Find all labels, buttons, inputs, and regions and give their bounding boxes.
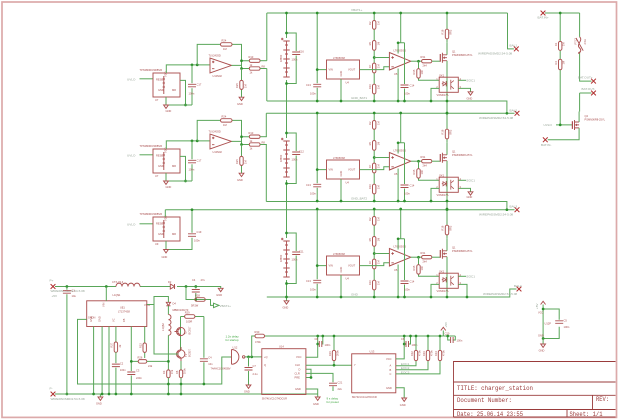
svg-text:EOC3: EOC3 xyxy=(401,370,410,374)
capacitor C21 xyxy=(329,383,337,386)
svg-text:WIREPADSMD2.54-5.08: WIREPADSMD2.54-5.08 xyxy=(478,52,512,56)
svg-text:D2: D2 xyxy=(168,280,172,284)
title block xyxy=(454,362,616,419)
ground symbol top xyxy=(218,288,223,291)
svg-text:100n: 100n xyxy=(120,368,126,372)
svg-text:GND: GND xyxy=(158,232,164,236)
svg-text:GND: GND xyxy=(244,389,250,393)
svg-text:LT1374S8: LT1374S8 xyxy=(118,310,130,314)
svg-text:R30: R30 xyxy=(255,330,260,334)
IC TPS3809 U9 xyxy=(153,217,180,241)
svg-text:U14: U14 xyxy=(279,344,284,348)
svg-text:47k: 47k xyxy=(170,369,174,374)
svg-text:C1: C1 xyxy=(72,289,76,293)
svg-text:BAT.IN+: BAT.IN+ xyxy=(538,16,549,20)
svg-text:WIREPADSMD2.54-5.08: WIREPADSMD2.54-5.08 xyxy=(483,292,517,296)
svg-text:GND: GND xyxy=(162,255,168,259)
wire primary top xyxy=(55,287,221,289)
ground symbol under U9 xyxy=(164,250,169,253)
capacitor C12 (across cell 2) xyxy=(285,132,304,185)
svg-text:GND: GND xyxy=(295,387,301,391)
svg-text:Date: 25.06.14 23:55: Date: 25.06.14 23:55 xyxy=(457,411,523,418)
svg-text:BAL4: BAL4 xyxy=(514,284,522,288)
wire U$1 SHDN pin delay node to U12 input xyxy=(78,319,232,384)
ground symbol on GND_BAT3 xyxy=(286,297,288,301)
IC U13 gate SN74LVC1G27 xyxy=(352,354,396,393)
svg-text:470k: 470k xyxy=(255,340,261,344)
svg-text:1M: 1M xyxy=(562,61,566,65)
resistor R26 feedback xyxy=(138,360,147,364)
svg-text:GND: GND xyxy=(538,334,544,338)
resistor R19 on CLK xyxy=(333,336,335,365)
svg-text:18650: 18650 xyxy=(279,154,283,162)
wire U13 VCC xyxy=(396,336,404,359)
wire U14 PRE stub xyxy=(306,377,311,379)
svg-text:C6: C6 xyxy=(401,337,405,341)
resistor R22 compensation xyxy=(144,327,146,359)
svg-text:200k: 200k xyxy=(336,350,340,356)
wire U14 CLK to U13 Y xyxy=(306,364,352,366)
svg-text:UVLO: UVLO xyxy=(127,222,136,226)
svg-text:18650: 18650 xyxy=(279,254,283,262)
IC U14 flip-flop SN74LVC1G74 xyxy=(262,349,306,395)
IC U12 inverter 74AHC1G04 xyxy=(211,335,245,371)
svg-text:U9: U9 xyxy=(155,242,159,246)
wire GND_BAT1 rail xyxy=(267,101,507,113)
wire EOC2 with pullup R33 xyxy=(396,336,428,370)
svg-text:GND_BAT1: GND_BAT1 xyxy=(351,96,367,100)
wire U14 VCC xyxy=(306,336,318,357)
svg-text:P-: P- xyxy=(50,386,53,390)
wire pad P- xyxy=(51,392,56,397)
wire U12 output to U14 xyxy=(245,356,262,358)
svg-text:D4: D4 xyxy=(173,302,177,306)
wire EOC1 with pullup R32 xyxy=(396,336,416,366)
svg-text:47u: 47u xyxy=(201,278,206,282)
svg-text:C4: C4 xyxy=(192,278,196,282)
svg-text:C12: C12 xyxy=(299,150,304,154)
wire VBAT2+ rail xyxy=(266,112,514,114)
diode D4 MBR0130 xyxy=(166,302,170,306)
svg-text:+5V: +5V xyxy=(52,294,59,298)
svg-text:C21: C21 xyxy=(338,381,343,385)
svg-text:C11: C11 xyxy=(299,250,304,254)
svg-text:22u: 22u xyxy=(338,387,343,391)
wire to output xyxy=(186,287,214,306)
svg-text:R28: R28 xyxy=(195,294,200,298)
diode D2 xyxy=(170,284,174,289)
svg-text:C19: C19 xyxy=(197,230,202,234)
svg-text:L1Q$2: L1Q$2 xyxy=(161,323,165,331)
svg-text:PTC1: PTC1 xyxy=(574,37,578,44)
wire opto OK2 emitter to GND xyxy=(458,188,470,191)
resistor R3 470k xyxy=(167,370,170,378)
svg-text:VCC: VCC xyxy=(296,355,302,359)
svg-text:R33: R33 xyxy=(422,351,426,356)
svg-text:220n: 220n xyxy=(136,376,142,380)
wire pad BAL2 xyxy=(515,111,520,116)
svg-text:24k: 24k xyxy=(148,364,153,368)
wire GND_BAT2 rail xyxy=(266,202,507,210)
svg-text:U$1: U$1 xyxy=(120,306,125,310)
svg-text:100k: 100k xyxy=(183,368,187,374)
transistor T2 xyxy=(175,327,185,335)
svg-text:REV:: REV: xyxy=(596,396,609,403)
capacitor C16 (across cell 1) xyxy=(285,32,304,85)
svg-text:BAT.OUT-: BAT.OUT- xyxy=(582,87,596,91)
svg-text:C5: C5 xyxy=(564,319,568,323)
svg-text:U12P: U12P xyxy=(545,321,552,325)
wire pad BAT.IN- xyxy=(543,137,548,142)
capacitor C20 bypass xyxy=(443,336,455,340)
svg-text:R3: R3 xyxy=(162,370,166,374)
svg-text:10n: 10n xyxy=(208,362,213,366)
node VBAT1+ output arrow xyxy=(214,303,220,307)
resistor R27 xyxy=(114,342,117,352)
capacitor C11 (across cell 3) xyxy=(285,232,304,285)
svg-text:T1: T1 xyxy=(184,353,188,357)
capacitor C6 xyxy=(404,336,410,344)
svg-text:L1Q$1: L1Q$1 xyxy=(113,293,121,297)
inductor L1Q$2 secondary winding xyxy=(167,306,169,315)
svg-text:C8: C8 xyxy=(315,337,319,341)
svg-text:2k: 2k xyxy=(118,344,122,347)
svg-text:GND: GND xyxy=(351,293,359,297)
svg-text:74AHC1G04DBV: 74AHC1G04DBV xyxy=(211,366,231,370)
svg-text:C2: C2 xyxy=(120,362,124,366)
wire UVLO to Q4 gate xyxy=(556,124,572,126)
svg-text:GND: GND xyxy=(283,306,289,310)
svg-text:U12: U12 xyxy=(233,346,238,350)
svg-text:GND_BAT2: GND_BAT2 xyxy=(351,197,367,201)
svg-text:R22: R22 xyxy=(139,343,143,348)
svg-text:+Q: +Q xyxy=(264,355,268,359)
svg-text:TITLE: charger_station: TITLE: charger_station xyxy=(457,385,533,392)
transistor Q4 MOSFET output switch xyxy=(572,120,579,130)
svg-text:for preset: for preset xyxy=(327,400,339,404)
svg-text:BAT.OUT+: BAT.OUT+ xyxy=(578,76,593,80)
svg-text:CLK: CLK xyxy=(295,363,300,367)
svg-text:C7: C7 xyxy=(253,364,257,368)
svg-text:470k: 470k xyxy=(418,350,422,356)
wire opto OK3 emitter to GND rail xyxy=(458,284,467,297)
svg-text:R34: R34 xyxy=(434,351,438,356)
battery B1 (cell 1) xyxy=(281,38,290,77)
wire UVLO stub row3 xyxy=(140,223,154,225)
svg-text:GND: GND xyxy=(96,402,102,406)
transistor T1 xyxy=(177,347,185,361)
svg-text:10u: 10u xyxy=(72,294,77,298)
wire stack column x447 rail links xyxy=(446,101,448,210)
svg-text:BAT.IN-: BAT.IN- xyxy=(541,143,551,147)
svg-text:+5V: +5V xyxy=(444,321,448,328)
capacitor C3 220n xyxy=(130,361,132,394)
svg-text:Sheet: 1/1: Sheet: 1/1 xyxy=(570,411,603,418)
svg-text:MR: MR xyxy=(172,232,176,236)
wire UVLO divider column xyxy=(559,13,561,125)
svg-text:100n: 100n xyxy=(564,325,570,329)
svg-text:C: C xyxy=(390,372,392,376)
svg-text:BC817: BC817 xyxy=(187,326,191,334)
wire BAL1 xyxy=(508,13,514,49)
svg-text:R29: R29 xyxy=(185,311,190,315)
resistor R30 to +5V bus xyxy=(252,336,444,357)
svg-text:GND: GND xyxy=(539,349,545,353)
svg-text:SHDN: SHDN xyxy=(88,315,95,319)
svg-text:100n: 100n xyxy=(292,58,298,62)
capacitor C1 input xyxy=(66,287,68,395)
resistor R29 xyxy=(181,317,204,351)
svg-text:100n: 100n xyxy=(194,239,200,243)
svg-text:100n: 100n xyxy=(457,339,463,343)
svg-text:A: A xyxy=(390,364,392,368)
battery B2 (cell 2) xyxy=(281,138,290,177)
wire pad BAT.IN+ on VBAT1+ rail xyxy=(541,11,546,16)
svg-text:470k: 470k xyxy=(442,350,446,356)
svg-text:VBAT1+: VBAT1+ xyxy=(351,8,363,12)
capacitor C10n delay xyxy=(203,345,205,384)
svg-text:R4: R4 xyxy=(554,61,558,65)
wire U14 D to PRE link xyxy=(306,369,311,377)
svg-text:BAL3: BAL3 xyxy=(510,205,518,209)
svg-text:100n: 100n xyxy=(292,258,298,262)
supply +5V arrow right xyxy=(441,327,446,330)
svg-text:GND: GND xyxy=(313,402,319,406)
capacitor C19 xyxy=(166,210,192,250)
svg-text:18650: 18650 xyxy=(279,54,283,62)
svg-text:GND: GND xyxy=(467,96,473,100)
svg-text:GND: GND xyxy=(467,195,473,199)
svg-text:VC: VC xyxy=(111,318,115,322)
svg-text:VCC: VCC xyxy=(538,311,544,315)
wire row1 comparator outputs to rails xyxy=(266,13,268,101)
resistor R2b 100k xyxy=(179,370,182,378)
svg-text:WIREPADSMD2.54-5.08: WIREPADSMD2.54-5.08 xyxy=(479,116,513,120)
svg-text:U13: U13 xyxy=(370,349,375,353)
svg-text:2.5A: 2.5A xyxy=(583,39,587,45)
ground symbol on bus xyxy=(99,394,101,397)
wire pad P+ xyxy=(51,284,56,289)
svg-text:GND: GND xyxy=(98,316,102,322)
svg-text:BAL2: BAL2 xyxy=(510,109,518,113)
svg-text:100n: 100n xyxy=(292,158,298,162)
svg-text:D: D xyxy=(299,367,301,371)
wire U14 GND xyxy=(306,389,318,397)
svg-text:R32: R32 xyxy=(410,351,414,356)
resistor R28 xyxy=(195,298,205,302)
resistor R4 100k xyxy=(559,59,562,69)
svg-text:GND: GND xyxy=(216,293,222,297)
wire pad BAL3 xyxy=(515,207,520,212)
svg-text:WIREPADSMD2.54-5.08: WIREPADSMD2.54-5.08 xyxy=(479,212,513,216)
svg-text:VIN: VIN xyxy=(102,303,106,307)
svg-text:B: B xyxy=(390,368,392,372)
svg-text:UVLO: UVLO xyxy=(544,123,553,127)
svg-text:VBAT1+: VBAT1+ xyxy=(220,304,232,308)
svg-text:BC857: BC857 xyxy=(188,349,192,357)
svg-text:PRE: PRE xyxy=(295,376,301,380)
svg-text:VCC: VCC xyxy=(386,357,392,361)
svg-text:C4: C4 xyxy=(208,356,212,360)
svg-text:C3: C3 xyxy=(136,369,140,373)
svg-text:C20: C20 xyxy=(445,332,450,336)
capacitor C8 xyxy=(318,336,323,344)
wire pad BAL4 xyxy=(517,287,522,292)
svg-text:5R1W: 5R1W xyxy=(191,304,199,308)
svg-text:Y: Y xyxy=(354,363,356,367)
ground symbol xyxy=(542,339,544,345)
wire opto OK1 emitter to GND xyxy=(458,88,470,91)
svg-text:470k: 470k xyxy=(430,350,434,356)
svg-text:GND: GND xyxy=(400,403,406,407)
fuse PTC1 xyxy=(576,37,583,53)
svg-text:for startup: for startup xyxy=(226,338,239,342)
svg-text:TPS3809K33DBVR: TPS3809K33DBVR xyxy=(140,212,163,216)
svg-text:100R: 100R xyxy=(186,320,192,324)
capacitor C2 100n xyxy=(115,352,117,394)
svg-text:C16: C16 xyxy=(299,50,304,54)
svg-text:PSMN06R8-25YL: PSMN06R8-25YL xyxy=(585,118,606,122)
svg-text:Document Number:: Document Number: xyxy=(457,397,512,404)
svg-text:GND: GND xyxy=(386,386,392,390)
junction dots battery stack on rails xyxy=(285,12,288,15)
wire GND_BAT3 rail xyxy=(267,289,517,297)
svg-text:WIREPADSMD2.54-5.08: WIREPADSMD2.54-5.08 xyxy=(51,397,85,401)
wire VCC branch xyxy=(543,305,559,339)
wire PTC column xyxy=(580,13,592,112)
title block outline xyxy=(454,362,616,418)
resistor R1 1M xyxy=(559,41,562,50)
svg-text:R1: R1 xyxy=(554,42,558,46)
wire U$1 VSW to secondary xyxy=(147,297,169,305)
svg-text:P+: P+ xyxy=(50,278,54,282)
wire EOC3 with pullup R34 xyxy=(396,336,440,374)
wire VBAT3+ rail xyxy=(165,209,514,211)
svg-text:CLR: CLR xyxy=(295,371,300,375)
wire primary ground bus xyxy=(55,393,318,395)
svg-text:100n: 100n xyxy=(412,343,418,347)
IC U$1 LT1374 regulator xyxy=(87,301,147,327)
wire U$1 VIN from P+ xyxy=(105,287,107,301)
wire battery stack vertical xyxy=(286,13,288,297)
supply +5V arrow xyxy=(541,301,546,304)
svg-text:SN74LVC1G74DCUR: SN74LVC1G74DCUR xyxy=(262,396,287,400)
svg-text:100n: 100n xyxy=(325,343,331,347)
wire pad BAT.OUT- xyxy=(591,91,596,96)
svg-text:FB: FB xyxy=(122,318,126,322)
svg-text:+5V: +5V xyxy=(535,302,539,309)
svg-text:Q: Q xyxy=(264,363,266,367)
svg-text:R27: R27 xyxy=(110,342,114,347)
wire VBAT1+ top rail xyxy=(267,12,580,14)
wire U$1 bottom pins to ground bus xyxy=(94,327,139,395)
capacitor C5 bypass xyxy=(555,321,563,324)
battery B3 (cell 3) xyxy=(281,238,290,277)
wire U13 GND xyxy=(396,388,404,398)
wire row2 comparator outputs to rails xyxy=(265,113,267,201)
svg-text:R6: R6 xyxy=(175,370,179,374)
wire U14 CLR to C21 xyxy=(306,373,333,382)
capacitor C4 47u xyxy=(195,287,197,300)
capacitor C7 2.2u xyxy=(248,357,250,385)
wire VDD from VBAT3+ rail xyxy=(164,210,166,217)
svg-text:Q4: Q4 xyxy=(585,114,589,118)
svg-text:R19: R19 xyxy=(328,351,332,356)
svg-text:R26: R26 xyxy=(138,356,143,360)
svg-text:BAL1: BAL1 xyxy=(510,43,518,47)
wire pad BAT.OUT+ xyxy=(591,79,596,84)
svg-text:T2: T2 xyxy=(184,331,188,335)
svg-text:1M: 1M xyxy=(562,42,566,46)
svg-text:SN74LVC1G27DCKR: SN74LVC1G27DCKR xyxy=(352,395,377,399)
svg-text:2.2u: 2.2u xyxy=(253,372,259,376)
wire pad BAL1 xyxy=(514,47,519,52)
